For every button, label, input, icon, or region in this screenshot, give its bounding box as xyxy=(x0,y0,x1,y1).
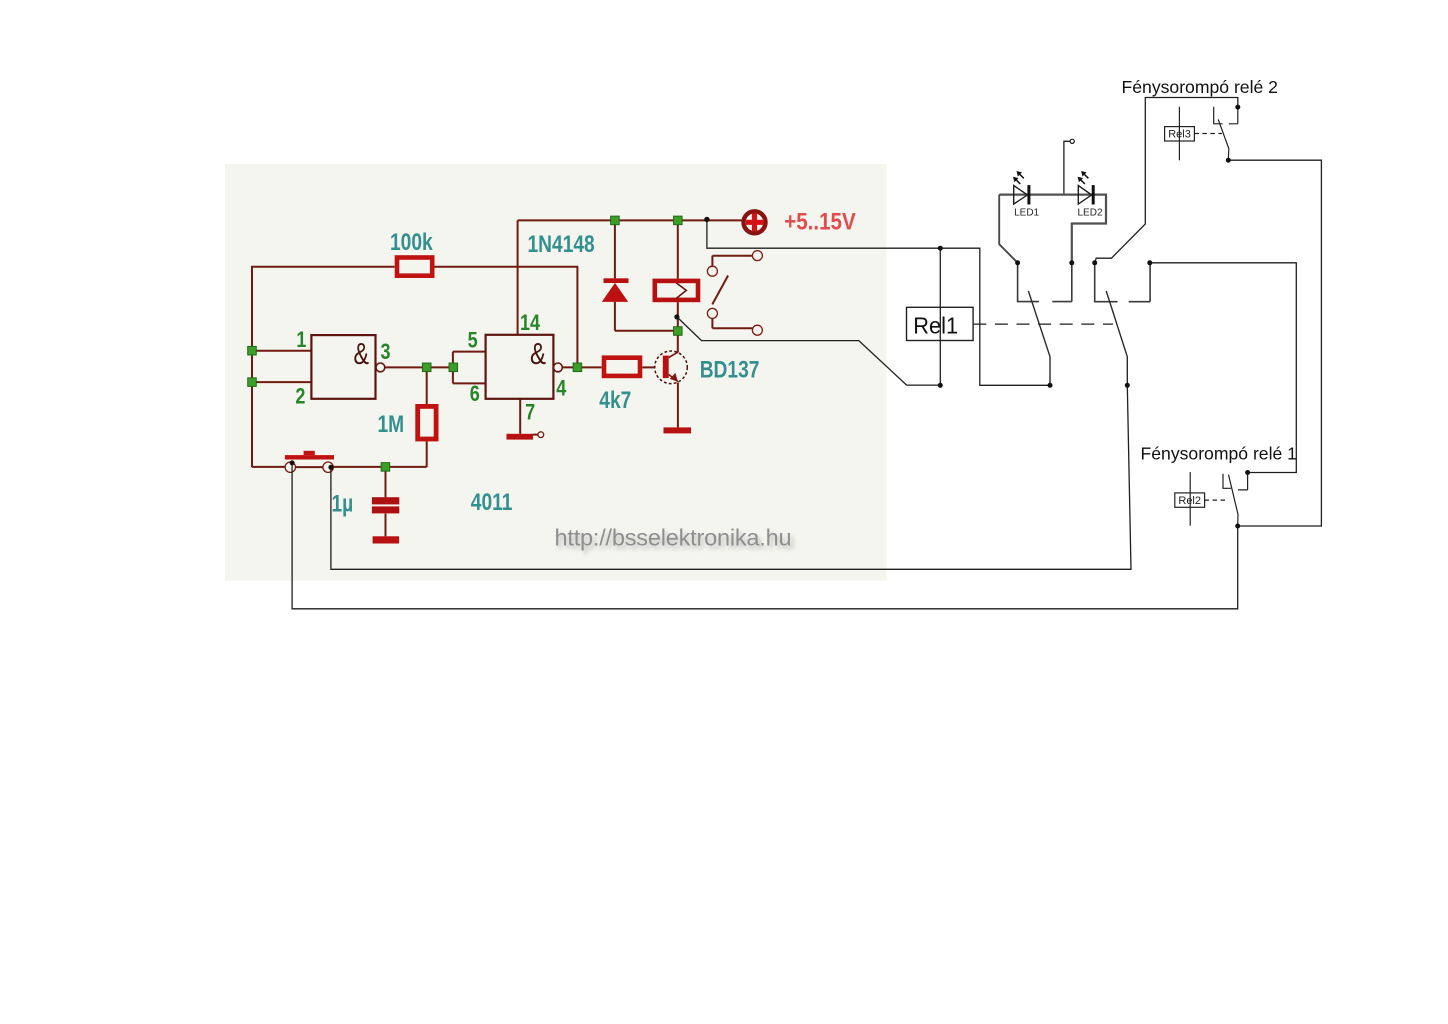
svg-text:BD137: BD137 xyxy=(700,355,760,383)
svg-text:&: & xyxy=(354,336,370,371)
svg-text:2: 2 xyxy=(295,385,305,409)
svg-text:4011: 4011 xyxy=(471,488,513,516)
svg-text:5: 5 xyxy=(468,329,478,353)
svg-text:Rel1: Rel1 xyxy=(913,312,958,339)
svg-text:http://bsselektronika.hu: http://bsselektronika.hu xyxy=(555,525,792,551)
svg-text:6: 6 xyxy=(470,382,480,406)
svg-text:7: 7 xyxy=(525,401,535,425)
svg-text:3: 3 xyxy=(381,340,391,364)
svg-text:LED2: LED2 xyxy=(1078,208,1103,219)
svg-text:1: 1 xyxy=(296,329,306,353)
svg-text:Fénysorompó relé 1: Fénysorompó relé 1 xyxy=(1141,444,1297,464)
svg-text:1M: 1M xyxy=(378,410,405,438)
svg-text:4: 4 xyxy=(556,377,567,401)
svg-text:Fénysorompó relé 2: Fénysorompó relé 2 xyxy=(1122,77,1278,97)
svg-text:14: 14 xyxy=(520,311,541,335)
svg-text:&: & xyxy=(530,336,546,371)
svg-text:1N4148: 1N4148 xyxy=(528,230,595,258)
svg-text:Rel3: Rel3 xyxy=(1168,129,1191,141)
svg-text:4k7: 4k7 xyxy=(599,386,631,414)
svg-text:100k: 100k xyxy=(390,228,433,256)
svg-text:Rel2: Rel2 xyxy=(1178,495,1201,507)
svg-text:LED1: LED1 xyxy=(1014,208,1039,219)
svg-text:1µ: 1µ xyxy=(332,490,354,518)
svg-text:+5..15V: +5..15V xyxy=(784,208,855,235)
